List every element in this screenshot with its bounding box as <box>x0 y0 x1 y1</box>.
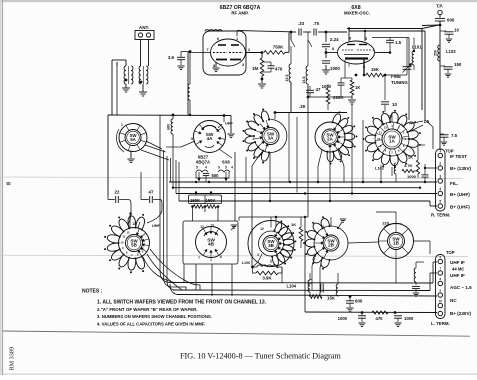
svg-text:T.P.: T.P. <box>436 4 443 9</box>
svg-text:3.9: 3.9 <box>168 55 175 60</box>
svg-text:3.9K: 3.9K <box>262 276 272 281</box>
svg-text:10: 10 <box>439 299 443 303</box>
svg-text:11: 11 <box>321 225 325 229</box>
svg-text:1.5: 1.5 <box>395 40 402 45</box>
svg-text:1: 1 <box>121 123 123 127</box>
svg-text:4.7K: 4.7K <box>404 163 413 168</box>
svg-text:1000: 1000 <box>404 316 414 321</box>
svg-text:9: 9 <box>268 118 270 122</box>
svg-text:9: 9 <box>218 166 220 170</box>
svg-text:4. VALUES OF ALL CAPACITORS AR: 4. VALUES OF ALL CAPACITORS ARE GIVEN IN… <box>97 322 205 327</box>
svg-text:R. TERM.: R. TERM. <box>431 213 450 218</box>
svg-text:TOP: TOP <box>445 149 454 154</box>
svg-text:L5: L5 <box>424 119 430 124</box>
svg-text:1: 1 <box>439 149 441 153</box>
svg-text:1B: 1B <box>393 241 400 246</box>
svg-text:FINE: FINE <box>391 74 401 79</box>
svg-text:47: 47 <box>149 190 154 195</box>
svg-text:4: 4 <box>231 166 233 170</box>
svg-text:7: 7 <box>206 48 208 52</box>
svg-text:47: 47 <box>316 87 321 92</box>
svg-text:L100: L100 <box>242 261 250 265</box>
svg-text:.33: .33 <box>298 21 305 26</box>
svg-text:B+ (UHF): B+ (UHF) <box>450 205 470 210</box>
svg-text:UHF: UHF <box>225 122 233 126</box>
svg-text:6BQ7A: 6BQ7A <box>196 160 210 165</box>
svg-text:600: 600 <box>212 173 220 178</box>
svg-text:13: 13 <box>210 224 214 228</box>
svg-text:1K: 1K <box>291 222 296 227</box>
svg-text:600: 600 <box>447 18 455 23</box>
svg-text:1M: 1M <box>252 66 258 71</box>
svg-text:150K: 150K <box>206 198 216 203</box>
svg-text:7: 7 <box>198 256 200 260</box>
svg-text:11: 11 <box>122 235 125 239</box>
svg-text:8: 8 <box>213 64 215 68</box>
svg-text:1: 1 <box>210 258 212 262</box>
svg-text:9: 9 <box>191 137 193 141</box>
svg-text:12: 12 <box>127 231 130 235</box>
svg-text:2A: 2A <box>327 137 334 142</box>
svg-text:NC: NC <box>450 298 457 303</box>
svg-text:2B: 2B <box>328 243 335 248</box>
svg-text:L. TERM.: L. TERM. <box>431 321 450 326</box>
svg-text:L103: L103 <box>446 49 456 54</box>
svg-text:15K: 15K <box>327 296 336 301</box>
svg-text:1000: 1000 <box>330 66 340 71</box>
svg-text:12: 12 <box>260 227 264 231</box>
svg-text:680: 680 <box>167 124 171 130</box>
svg-text:12: 12 <box>384 126 388 130</box>
svg-text:7: 7 <box>403 149 405 153</box>
svg-text:B+ (230V): B+ (230V) <box>450 311 472 316</box>
svg-text:3A: 3A <box>268 136 275 141</box>
svg-text:16.5: 16.5 <box>302 77 306 84</box>
svg-text:7.5: 7.5 <box>451 133 458 138</box>
svg-text:3: 3 <box>242 63 244 67</box>
svg-text:150: 150 <box>454 62 462 67</box>
svg-text:13: 13 <box>388 115 392 119</box>
svg-text:1000: 1000 <box>322 84 332 89</box>
svg-text:11: 11 <box>379 131 382 135</box>
svg-text:5: 5 <box>439 200 441 204</box>
svg-text:3B: 3B <box>268 243 275 248</box>
svg-text:10: 10 <box>377 137 381 141</box>
svg-text:B+ (135V): B+ (135V) <box>450 166 472 171</box>
svg-text:1K: 1K <box>408 155 413 160</box>
svg-text:3: 3 <box>439 175 441 179</box>
svg-text:1K: 1K <box>355 85 360 90</box>
svg-text:1: 1 <box>401 123 403 127</box>
svg-text:12: 12 <box>200 225 204 229</box>
svg-text:22: 22 <box>115 190 120 195</box>
svg-text:RM 3389: RM 3389 <box>9 347 16 371</box>
svg-text:7: 7 <box>348 64 350 68</box>
svg-text:4A: 4A <box>207 136 214 141</box>
svg-text:AGC – 1.5: AGC – 1.5 <box>450 285 472 290</box>
svg-text:1. ALL SWITCH WAFERS VIEWED FR: 1. ALL SWITCH WAFERS VIEWED FROM THE FRO… <box>97 299 267 305</box>
svg-text:600: 600 <box>355 299 363 304</box>
svg-text:750K: 750K <box>273 45 284 50</box>
svg-text:NOTES :: NOTES : <box>82 288 103 294</box>
svg-text:1A: 1A <box>389 139 396 144</box>
svg-text:6X8: 6X8 <box>222 160 230 165</box>
svg-text:4B: 4B <box>208 242 215 247</box>
svg-text:IF TEST: IF TEST <box>450 154 467 159</box>
svg-text:4: 4 <box>439 187 441 191</box>
svg-text:9: 9 <box>378 149 380 153</box>
svg-text:5B: 5B <box>131 243 138 248</box>
svg-text:TUNING: TUNING <box>391 80 408 85</box>
svg-text:5: 5 <box>225 166 227 170</box>
svg-text:220K: 220K <box>333 95 344 100</box>
svg-text:ANT.: ANT. <box>139 25 149 30</box>
svg-text:1000: 1000 <box>407 174 417 179</box>
svg-text:4: 4 <box>205 166 207 170</box>
svg-text:10: 10 <box>121 240 124 244</box>
svg-text:2: 2 <box>372 48 374 52</box>
svg-text:150K: 150K <box>190 198 200 203</box>
svg-text:MIXER-OSC.: MIXER-OSC. <box>344 11 370 16</box>
svg-text:RF AMP.: RF AMP. <box>231 11 248 16</box>
svg-text:.75: .75 <box>313 21 320 26</box>
svg-text:3: 3 <box>257 253 259 257</box>
svg-text:2: 2 <box>248 48 250 52</box>
svg-text:250: 250 <box>434 50 438 56</box>
svg-text:B+ (UHF): B+ (UHF) <box>450 192 470 197</box>
svg-text:15K: 15K <box>371 67 380 72</box>
svg-text:8: 8 <box>332 47 334 51</box>
svg-text:L101: L101 <box>412 45 422 50</box>
svg-text:L104: L104 <box>286 284 296 289</box>
svg-text:2: 2 <box>253 137 255 141</box>
svg-text:2."A" FRONT OF WAFER "B": 2."A" FRONT OF WAFER "B" REAR OF WAFER. <box>97 307 198 312</box>
svg-text:TOP: TOP <box>446 250 455 255</box>
svg-text:8: 8 <box>7 182 13 185</box>
svg-text:1000: 1000 <box>338 316 348 321</box>
svg-text:6: 6 <box>217 37 219 41</box>
svg-text:16.5: 16.5 <box>285 75 289 82</box>
svg-text:13: 13 <box>132 222 136 226</box>
svg-text:3. NUMBERS ON WAFERS SHOW CHAN: 3. NUMBERS ON WAFERS SHOW CHANNEL POSITI… <box>97 314 212 319</box>
svg-text:FIL.: FIL. <box>450 181 458 186</box>
svg-text:6: 6 <box>220 255 222 259</box>
svg-text:2: 2 <box>439 162 441 166</box>
svg-text:L102: L102 <box>375 166 385 171</box>
svg-text:470: 470 <box>376 316 384 321</box>
svg-text:5: 5 <box>196 166 198 170</box>
svg-text:10: 10 <box>392 102 397 107</box>
svg-text:44 MC: 44 MC <box>452 267 464 272</box>
svg-text:10: 10 <box>454 28 459 33</box>
svg-text:1: 1 <box>236 37 238 41</box>
svg-text:UHF: UHF <box>152 224 160 228</box>
svg-text:470: 470 <box>275 67 283 72</box>
svg-text:FIG. 10 V-12400-8 — Tuner Sc: FIG. 10 V-12400-8 — Tuner Schematic Diag… <box>180 352 341 361</box>
svg-text:.39: .39 <box>299 104 306 109</box>
svg-text:UHF IF: UHF IF <box>450 260 465 265</box>
svg-text:UHF IF: UHF IF <box>450 273 465 278</box>
svg-text:2.24: 2.24 <box>330 37 339 42</box>
svg-text:5A: 5A <box>130 137 136 142</box>
